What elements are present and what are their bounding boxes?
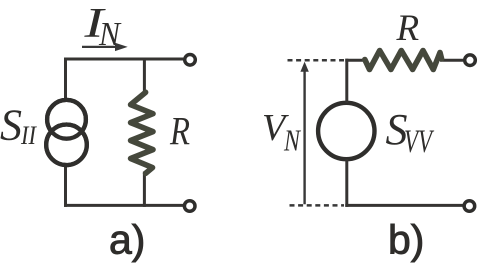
terminal: top right of b (open node): [465, 55, 476, 66]
svg-text:II: II: [20, 121, 37, 150]
dashed extension line, bottom of V_N: [290, 204, 345, 207]
svg-text:a): a): [109, 217, 145, 263]
wire: top horizontal of b from corner to resistor: [345, 59, 366, 62]
dimension line for V_N with up arrow: [300, 62, 308, 205]
terminal: bottom right of b (open node): [464, 201, 475, 212]
svg-text:N: N: [98, 16, 122, 53]
svg-text:b): b): [388, 217, 424, 263]
wire: right side of loop a: [143, 58, 146, 207]
resistor R (vertical zigzag) in loop a: [129, 95, 158, 172]
wire: top side of loop a: [64, 58, 183, 61]
svg-text:N: N: [283, 123, 302, 158]
wire: bottom side of loop a: [64, 204, 183, 207]
svg-text:R: R: [169, 108, 190, 153]
svg-text:S: S: [0, 101, 22, 150]
wire: stub from source bottom down to corner: [345, 159, 348, 207]
terminal: top right of a (open node): [185, 55, 196, 66]
terminal: bottom right of a (open node): [184, 201, 195, 212]
svg-text:VV: VV: [404, 124, 435, 160]
dashed extension line, top of V_N: [288, 59, 345, 62]
wire: top horizontal of b from resistor to terminal: [440, 59, 463, 62]
voltage source S_VV (circle): [318, 103, 374, 159]
svg-text:R: R: [396, 8, 420, 49]
wire: stub from source top up to corner: [345, 59, 348, 103]
current source S_II (two overlapping circles): [46, 100, 87, 165]
wire: bottom horizontal of b from corner to terminal: [345, 204, 463, 207]
wire: left side of loop a: [64, 58, 67, 207]
resistor R (horizontal zigzag) in b: [365, 51, 442, 70]
current arrow for I_N: [82, 43, 128, 51]
